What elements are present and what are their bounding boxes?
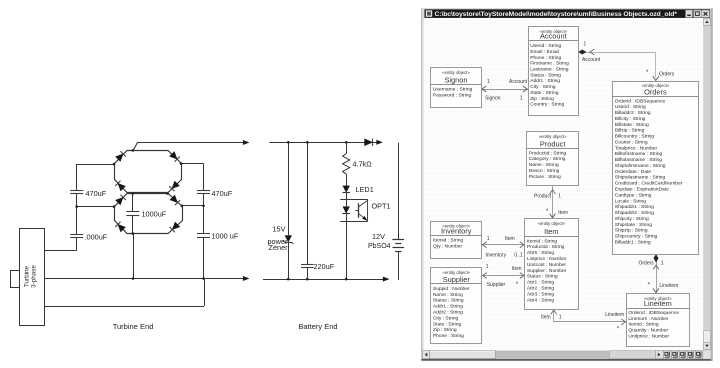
svg-text:Name : String: Name : String: [529, 162, 559, 168]
svg-text:Zip : String: Zip : String: [530, 96, 554, 102]
svg-text:Inventory: Inventory: [486, 253, 507, 259]
svg-text:Category : String: Category : String: [529, 156, 566, 162]
svg-text:Email : Email: Email : Email: [530, 49, 559, 55]
svg-text:Account: Account: [582, 57, 601, 63]
svg-text:C:\bc\toystore\ToyStoreModel\m: C:\bc\toystore\ToyStoreModel\model\toyst…: [435, 11, 678, 18]
svg-text:Status : String: Status : String: [527, 274, 558, 280]
svg-text:Turbine End: Turbine End: [113, 322, 154, 331]
svg-text:Lineitem: Lineitem: [605, 312, 624, 318]
svg-text:City : String: City : String: [530, 84, 556, 90]
svg-text:Lineitem: Lineitem: [644, 299, 672, 308]
svg-text:1: 1: [486, 264, 489, 270]
svg-text:Item: Item: [541, 314, 551, 320]
svg-text:1: 1: [661, 260, 664, 266]
svg-text:Billtolastname : String: Billtolastname : String: [615, 157, 663, 163]
svg-text:Orderid : IDBSequence: Orderid : IDBSequence: [615, 98, 666, 104]
svg-text:Linenum : Number: Linenum : Number: [628, 316, 669, 322]
svg-text:1000 uF: 1000 uF: [212, 232, 239, 241]
svg-text:State : String: State : String: [433, 321, 462, 327]
svg-text:Expdate : ExpirationDate: Expdate : ExpirationDate: [615, 187, 669, 193]
svg-text:Shipaddr2 : String: Shipaddr2 : String: [615, 210, 654, 216]
svg-text:Lastname : String: Lastname : String: [530, 67, 569, 73]
svg-text:1: 1: [487, 236, 490, 242]
svg-text:1: 1: [520, 96, 523, 102]
svg-text:«entity object»: «entity object»: [537, 221, 565, 226]
svg-text:Item: Item: [505, 236, 515, 242]
svg-text:Item: Item: [544, 227, 558, 236]
svg-text:Shiptofirstname : String: Shiptofirstname : String: [615, 163, 666, 169]
svg-text:Billzip : String: Billzip : String: [615, 128, 645, 134]
svg-text:1: 1: [559, 314, 562, 320]
svg-text:Product: Product: [540, 140, 565, 149]
svg-text:LED1: LED1: [356, 185, 374, 194]
svg-text:Attr3 : String: Attr3 : String: [527, 291, 554, 297]
svg-text:Itemid : String: Itemid : String: [527, 238, 557, 244]
svg-text:OPT1: OPT1: [372, 201, 391, 210]
svg-text:Creditcard : CreditCardNumber: Creditcard : CreditCardNumber: [615, 181, 683, 187]
svg-text:4.7kΩ: 4.7kΩ: [353, 159, 373, 168]
svg-text:Cardtype : String: Cardtype : String: [615, 192, 652, 198]
svg-text:Billaddr2 : String: Billaddr2 : String: [615, 110, 651, 116]
svg-text:Shipstate : String: Shipstate : String: [615, 222, 653, 228]
svg-text:Descn : String: Descn : String: [529, 168, 560, 174]
svg-text:Status : String: Status : String: [433, 298, 464, 304]
svg-text:«entity object»: «entity object»: [539, 134, 567, 139]
svg-text:470uF: 470uF: [86, 189, 107, 198]
svg-text:12V: 12V: [372, 232, 385, 241]
svg-text:Addr1 : String: Addr1 : String: [530, 78, 560, 84]
svg-text:Supplier : Number: Supplier : Number: [527, 268, 567, 274]
svg-text:Billaddr1 : String: Billaddr1 : String: [615, 239, 651, 245]
svg-text:Orderid : IDBSequence: Orderid : IDBSequence: [628, 310, 679, 316]
svg-text:Phone : String: Phone : String: [433, 333, 464, 339]
svg-text:Phone : String: Phone : String: [530, 55, 561, 61]
svg-text:Orders: Orders: [644, 88, 667, 97]
svg-text:Shipcity : String: Shipcity : String: [615, 216, 649, 222]
svg-text:Suppid : Number: Suppid : Number: [433, 286, 470, 292]
svg-text:Supplier: Supplier: [487, 282, 506, 288]
svg-text:Attr4 : String: Attr4 : String: [527, 297, 554, 303]
svg-text:City : String: City : String: [433, 315, 459, 321]
svg-text:Name : String: Name : String: [433, 292, 463, 298]
svg-text:Inventory: Inventory: [441, 227, 472, 236]
svg-text:Billstate : String: Billstate : String: [615, 122, 649, 128]
svg-text:Signon: Signon: [444, 76, 467, 85]
svg-text:Itemid : String: Itemid : String: [433, 238, 463, 244]
svg-text:Itemid : String: Itemid : String: [628, 322, 658, 328]
svg-text:Orderdate : Date: Orderdate : Date: [615, 169, 652, 175]
svg-text:Item: Item: [558, 210, 568, 216]
svg-text:Qty : Number: Qty : Number: [433, 243, 462, 249]
svg-text:Listprice : Number: Listprice : Number: [527, 256, 567, 262]
svg-text:Username : String: Username : String: [433, 87, 473, 93]
svg-text:Orders: Orders: [639, 260, 655, 266]
svg-text:Locale : String: Locale : String: [615, 198, 647, 204]
svg-text:Userid : String: Userid : String: [530, 43, 561, 49]
svg-text:Picture : String: Picture : String: [529, 174, 561, 180]
svg-text:Quantity : Number: Quantity : Number: [628, 327, 668, 333]
svg-text:Billtofirstname : String: Billtofirstname : String: [615, 151, 663, 157]
svg-text:Product: Product: [534, 193, 552, 199]
svg-text:Account: Account: [509, 79, 528, 85]
svg-text:Unitcost : Number: Unitcost : Number: [527, 262, 567, 268]
svg-text:220uF: 220uF: [314, 262, 335, 271]
svg-text:Battery End: Battery End: [298, 322, 337, 331]
svg-text:Productid : String: Productid : String: [527, 244, 565, 250]
svg-text:1000uF: 1000uF: [142, 210, 167, 219]
svg-text:Shipaddr1 : String: Shipaddr1 : String: [615, 204, 654, 210]
svg-text:Password : String: Password : String: [433, 93, 472, 99]
svg-text:1: 1: [487, 79, 490, 85]
svg-text:Shiptolastname : String: Shiptolastname : String: [615, 175, 666, 181]
svg-text:Shipzip : String: Shipzip : String: [615, 228, 648, 234]
svg-text:Account: Account: [540, 32, 567, 41]
svg-text:Orders: Orders: [659, 71, 675, 77]
svg-text:Attr2 : String: Attr2 : String: [527, 286, 554, 292]
svg-text:Item: Item: [512, 266, 522, 272]
svg-text:0..1: 0..1: [514, 252, 523, 258]
svg-text:Zener: Zener: [269, 243, 289, 252]
svg-text:«entity object»: «entity object»: [442, 70, 470, 75]
svg-text:Userid : String: Userid : String: [615, 104, 646, 110]
svg-text:Productid : String: Productid : String: [529, 150, 567, 156]
svg-text:Addr2 : String: Addr2 : String: [433, 310, 463, 316]
svg-text:.000uF: .000uF: [85, 232, 108, 241]
svg-text:1: 1: [558, 193, 561, 199]
svg-text:Country : String: Country : String: [530, 102, 564, 108]
svg-text:Addr1 : String: Addr1 : String: [433, 304, 463, 310]
svg-text:Turbine: Turbine: [24, 265, 31, 287]
svg-text:1: 1: [584, 42, 587, 48]
svg-text:Totalprice : Number: Totalprice : Number: [615, 145, 658, 151]
svg-text:Firstname : String: Firstname : String: [530, 61, 569, 67]
svg-text:Zip : String: Zip : String: [433, 327, 457, 333]
svg-text:Courier : String: Courier : String: [615, 139, 648, 145]
svg-text:Attr5 : String: Attr5 : String: [527, 250, 554, 256]
svg-text:Status : String: Status : String: [530, 72, 561, 78]
svg-text:3-phase: 3-phase: [31, 265, 38, 288]
svg-text:Signon: Signon: [485, 96, 501, 102]
svg-text:Billcity : String: Billcity : String: [615, 116, 646, 122]
svg-text:15V: 15V: [273, 224, 286, 233]
svg-text:Attr1 : String: Attr1 : String: [527, 280, 554, 286]
svg-text:Supplier: Supplier: [443, 275, 471, 284]
svg-text:Billcountry : String: Billcountry : String: [615, 134, 655, 140]
svg-text:Lineitem: Lineitem: [659, 283, 678, 289]
svg-text:PbSO4: PbSO4: [368, 243, 391, 250]
svg-text:Shipcountry : String: Shipcountry : String: [615, 234, 658, 240]
svg-text:Unitprice : Number: Unitprice : Number: [628, 333, 669, 339]
svg-text:State : String: State : String: [530, 90, 559, 96]
svg-text:470uF: 470uF: [212, 189, 233, 198]
